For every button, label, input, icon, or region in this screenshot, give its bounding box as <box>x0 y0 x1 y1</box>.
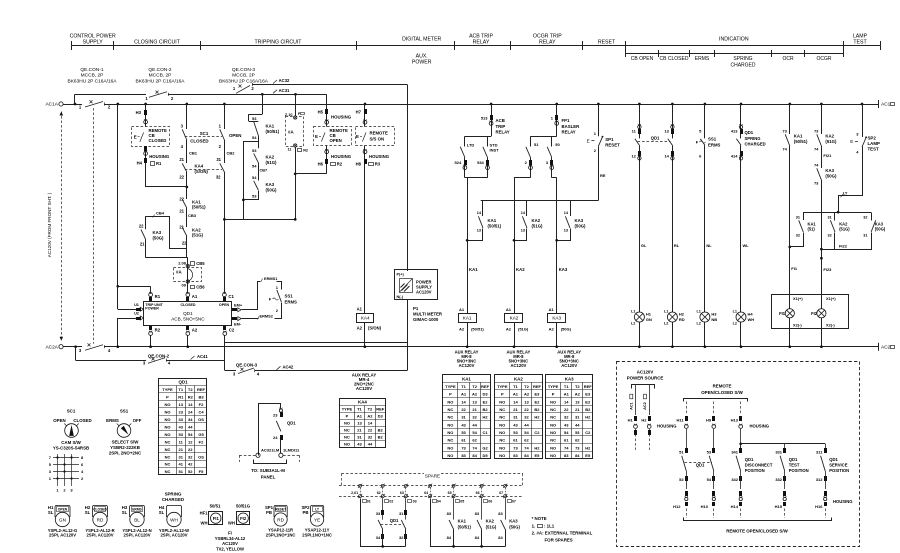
svg-text:POSITION: POSITION <box>789 468 809 473</box>
svg-text:FI2: FI2 <box>240 516 247 521</box>
svg-text:R2: R2 <box>303 149 308 153</box>
svg-text:QE.CON-1: QE.CON-1 <box>80 67 104 73</box>
breaker QE.CON-1 pole 2 on bus AC2A <box>63 346 82 348</box>
svg-text:FI21: FI21 <box>823 153 832 158</box>
svg-text:C1: C1 <box>482 430 488 435</box>
svg-text:R3: R3 <box>375 162 381 167</box>
svg-text:A1: A1 <box>549 307 555 312</box>
svg-text:H11: H11 <box>676 418 684 423</box>
svg-text:L1: L1 <box>631 310 635 314</box>
svg-text:(51G): (51G) <box>192 233 204 238</box>
remote open/closed switch assembly outer dashed box <box>617 362 860 547</box>
svg-text:34: 34 <box>376 535 381 540</box>
svg-text:REF: REF <box>584 384 593 389</box>
svg-text:BASLER: BASLER <box>562 124 581 129</box>
svg-text:NO: NO <box>165 432 171 437</box>
svg-text:OPEN: OPEN <box>330 138 342 143</box>
table KA4 contact cross-reference <box>340 399 386 448</box>
svg-text:CLOSED: CLOSED <box>73 418 91 423</box>
contact QD1 aux link CB OPEN / CB CLOSED <box>638 141 671 143</box>
svg-text:L1: L1 <box>696 310 700 314</box>
svg-text:H2: H2 <box>585 445 591 450</box>
svg-text:(50G): (50G) <box>575 224 587 229</box>
svg-text:32: 32 <box>524 415 529 420</box>
svg-text:32: 32 <box>564 415 569 420</box>
svg-text:OPEN: OPEN <box>229 133 241 138</box>
svg-text:31: 31 <box>513 415 518 420</box>
node AC2 right terminal <box>878 343 880 351</box>
svg-text:FI22: FI22 <box>839 244 848 249</box>
wire OCGR indication rung from bus <box>820 103 823 106</box>
svg-text:AC1: AC1 <box>881 102 891 108</box>
wire bus AC1A to trip-unit power R1 rail <box>116 103 119 106</box>
svg-text:50: 50 <box>555 142 560 147</box>
svg-text:43: 43 <box>461 422 466 427</box>
svg-text:2.08: 2.08 <box>178 261 187 266</box>
svg-text:1LMDI11: 1LMDI11 <box>283 448 300 453</box>
svg-text:AC321LM: AC321LM <box>261 448 280 453</box>
svg-text:H2: H2 <box>534 445 540 450</box>
wire net AC42 with label <box>255 370 407 372</box>
svg-text:WH: WH <box>228 521 235 526</box>
svg-text:E2: E2 <box>534 399 540 404</box>
wire AC41 segment left <box>76 360 146 362</box>
switch REMOTE CB CLOSED pushbutton dashed box <box>132 127 170 147</box>
svg-text:24: 24 <box>273 435 278 440</box>
svg-text:WL: WL <box>743 243 750 248</box>
nodes AC321LM and 1LMDI11 terminals <box>256 453 260 457</box>
svg-text:R2: R2 <box>188 395 194 400</box>
wire U1 feed from R1 rail <box>118 309 137 311</box>
svg-text:KA1: KA1 <box>266 124 275 129</box>
wire FI1 rung down to lamp box <box>789 146 791 294</box>
svg-text:AC31: AC31 <box>279 88 290 93</box>
svg-text:PANEL: PANEL <box>261 475 276 480</box>
svg-text:H6: H6 <box>318 162 324 167</box>
junction bus AC2A to AC41 return <box>74 345 77 348</box>
svg-text:T2: T2 <box>188 387 193 392</box>
svg-text:NC: NC <box>344 434 350 439</box>
svg-text:CB6: CB6 <box>196 285 205 290</box>
svg-text:AC1: AC1 <box>629 402 633 410</box>
svg-text:14: 14 <box>513 399 518 404</box>
svg-text:2SPI, 2NO+2NC: 2SPI, 2NO+2NC <box>109 451 142 456</box>
svg-text:P: P <box>449 392 452 397</box>
svg-text:KA3: KA3 <box>266 182 275 187</box>
svg-text:F5: F5 <box>199 469 204 474</box>
svg-text:YE: YE <box>314 517 320 522</box>
svg-text:QD1: QD1 <box>178 380 188 385</box>
svg-text:B2: B2 <box>534 407 540 412</box>
svg-text:09: 09 <box>182 283 187 288</box>
lamp box FI1 FI2 with X1 X2 terminals <box>772 295 849 329</box>
svg-text:62: 62 <box>377 491 381 495</box>
svg-text:73: 73 <box>782 129 787 134</box>
svg-text:REMOTE: REMOTE <box>713 384 732 389</box>
svg-text:53: 53 <box>513 430 518 435</box>
svg-text:T1: T1 <box>357 407 362 412</box>
svg-text:04: 04 <box>437 500 441 504</box>
svg-text:LT: LT <box>843 190 848 195</box>
svg-text:312: 312 <box>816 477 823 482</box>
svg-text:OS: OS <box>198 454 204 459</box>
svg-text:NC: NC <box>550 407 556 412</box>
svg-text:NO: NO <box>550 453 556 458</box>
svg-text:2SPI, AC120V: 2SPI, AC120V <box>123 533 150 538</box>
svg-text:REF: REF <box>533 384 542 389</box>
svg-text:KA3: KA3 <box>565 376 574 381</box>
contacts FP1 relay 51 and 50 terminals 2 3 <box>531 136 557 138</box>
svg-text:QD1: QD1 <box>183 311 193 316</box>
wire KA2 relay rung vertical <box>514 177 531 179</box>
svg-text:TEST: TEST <box>868 147 880 152</box>
svg-text:22: 22 <box>564 407 569 412</box>
svg-text:11: 11 <box>287 148 291 152</box>
svg-text:B2: B2 <box>378 434 384 439</box>
svg-text:53: 53 <box>179 432 184 437</box>
svg-text:T1: T1 <box>178 387 183 392</box>
wire H13 feed to position switches <box>739 442 742 445</box>
svg-text:31: 31 <box>399 511 404 516</box>
svg-text:22: 22 <box>368 428 373 433</box>
svg-text:332: 332 <box>775 477 782 482</box>
wire CB4 bypass jog <box>146 217 187 249</box>
svg-text:(51G): (51G) <box>532 224 544 229</box>
svg-text:X1(+): X1(+) <box>826 296 836 301</box>
svg-text:31: 31 <box>357 434 362 439</box>
svg-text:ACB, 5NO+5NC: ACB, 5NO+5NC <box>171 317 205 322</box>
svg-text:NC: NC <box>448 415 454 420</box>
svg-text:E: E <box>356 134 359 139</box>
svg-text:SUPPLY: SUPPLY <box>83 40 104 46</box>
svg-text:22: 22 <box>179 197 184 202</box>
svg-text:H3: H3 <box>711 312 717 317</box>
svg-text:74: 74 <box>782 147 787 152</box>
wire H5 remote-CB-open rung from AC31 <box>326 94 328 126</box>
svg-text:* NOTE: * NOTE <box>532 516 547 521</box>
svg-text:A1: A1 <box>513 392 519 397</box>
svg-text:(50G): (50G) <box>266 187 278 192</box>
svg-text:H9: H9 <box>706 418 712 423</box>
node AC1 right terminal <box>878 100 880 108</box>
svg-text:PB: PB <box>303 510 309 515</box>
svg-text:HOUSING: HOUSING <box>750 424 770 429</box>
svg-text:TRIPPING CIRCUIT: TRIPPING CIRCUIT <box>255 40 303 46</box>
svg-text:KA3: KA3 <box>552 316 561 321</box>
svg-text:KA2: KA2 <box>514 376 523 381</box>
svg-text:KA1: KA1 <box>794 134 803 139</box>
svg-text:NO: NO <box>499 422 505 427</box>
svg-text:ERMS: ERMS <box>132 507 142 511</box>
svg-text:S/S ON: S/S ON <box>370 137 385 142</box>
svg-text:OFF: OFF <box>133 418 142 423</box>
svg-text:F2: F2 <box>199 402 204 407</box>
svg-text:YS-C320S-54RSB: YS-C320S-54RSB <box>53 446 89 451</box>
svg-text:534: 534 <box>477 160 484 165</box>
svg-text:NC: NC <box>165 454 171 459</box>
svg-text:ERMS: ERMS <box>695 56 710 62</box>
svg-text:21: 21 <box>179 157 184 162</box>
svg-text:NO: NO <box>499 430 505 435</box>
svg-text:RELAY: RELAY <box>562 130 576 135</box>
table QD1 ACB contact cross-reference <box>159 379 207 475</box>
svg-text:NO: NO <box>165 417 171 422</box>
svg-text:DIGITAL METER: DIGITAL METER <box>402 37 441 43</box>
svg-text:(50/51): (50/51) <box>794 139 808 144</box>
svg-text:CHARGED: CHARGED <box>162 497 184 502</box>
svg-text:HOUSING: HOUSING <box>369 154 390 159</box>
svg-text:A2: A2 <box>472 392 478 397</box>
svg-text:KA1: KA1 <box>458 519 467 524</box>
svg-text:341: 341 <box>731 450 738 455</box>
svg-text:HOUSING: HOUSING <box>833 499 853 504</box>
contacts KA1 KA2 KA3 holding pins 14-13 <box>482 201 484 217</box>
wire KA3 relay rung vertical <box>552 177 557 179</box>
svg-text:65: 65 <box>448 491 452 495</box>
svg-text:13: 13 <box>472 399 477 404</box>
svg-text:AC120V: AC120V <box>510 363 526 368</box>
svg-text:B2: B2 <box>378 428 384 433</box>
svg-text:C2: C2 <box>585 430 591 435</box>
svg-text:TYPE: TYPE <box>162 387 173 392</box>
svg-text:31: 31 <box>827 216 831 220</box>
svg-text:54: 54 <box>252 135 257 140</box>
svg-text:44: 44 <box>188 424 193 429</box>
svg-text:SELECT S/W: SELECT S/W <box>112 440 140 445</box>
svg-text:21: 21 <box>179 225 184 230</box>
svg-text:D5: D5 <box>482 453 488 458</box>
wire KA1 relay rung vertical <box>465 177 488 179</box>
svg-text:42: 42 <box>188 462 193 467</box>
svg-text:14: 14 <box>368 421 373 426</box>
wire trip chain parallel return <box>258 135 260 148</box>
svg-text:R2: R2 <box>337 162 343 167</box>
svg-text:13: 13 <box>575 399 580 404</box>
svg-text:(50/51): (50/51) <box>458 524 472 529</box>
svg-text:54: 54 <box>564 430 569 435</box>
svg-text:32: 32 <box>216 175 221 180</box>
svg-text:74: 74 <box>814 163 819 168</box>
svg-text:(50G): (50G) <box>509 524 520 529</box>
svg-text:84: 84 <box>475 535 480 540</box>
breaker QD1 ACB 5NO+5NC main box <box>144 302 232 326</box>
svg-text:32: 32 <box>796 234 800 238</box>
wire FI22 branch return <box>822 233 835 250</box>
terminal H6 housing connector and resistor R2 label <box>326 146 328 174</box>
svg-text:NC: NC <box>499 438 505 443</box>
svg-text:TYPE: TYPE <box>548 384 559 389</box>
svg-text:KA2: KA2 <box>266 155 275 160</box>
svg-text:62: 62 <box>472 438 477 443</box>
svg-text:D3: D3 <box>378 414 384 419</box>
svg-text:CHARGED: CHARGED <box>730 63 755 69</box>
svg-text:01: 01 <box>367 500 371 504</box>
svg-text:(50/51): (50/51) <box>266 129 280 134</box>
svg-text:H2: H2 <box>585 415 591 420</box>
svg-text:QE.CON-2: QE.CON-2 <box>148 67 172 73</box>
svg-text:73: 73 <box>575 445 580 450</box>
svg-text:(51G): (51G) <box>266 160 278 165</box>
bracket TO SUB3A1L-M PANEL <box>254 460 287 464</box>
svg-text:AC2A: AC2A <box>45 344 58 350</box>
svg-text:AC2: AC2 <box>643 402 647 410</box>
wire KA spare group return <box>431 499 506 547</box>
wire H4 branch join to closing rung <box>146 186 187 188</box>
svg-text:TRIP: TRIP <box>496 124 506 129</box>
wire lamp-test tie line <box>803 212 871 214</box>
svg-text:51: 51 <box>534 142 539 147</box>
terminals R2 A2 C2 on ACB QD1 bottom <box>149 326 152 330</box>
svg-text:A2: A2 <box>524 392 530 397</box>
svg-text:BL: BL <box>134 517 140 522</box>
svg-text:CB CLOSED: CB CLOSED <box>660 56 689 62</box>
svg-text:LAMP: LAMP <box>868 141 881 146</box>
svg-text:54: 54 <box>188 432 193 437</box>
svg-text:T2: T2 <box>472 384 477 389</box>
svg-text:P1: P1 <box>413 306 419 311</box>
svg-text:H2: H2 <box>679 312 685 317</box>
svg-text:G2: G2 <box>482 445 488 450</box>
svg-text:34: 34 <box>188 417 193 422</box>
svg-text:GN: GN <box>59 517 66 522</box>
breaker QE.CON-1 pole link dashed <box>93 108 95 344</box>
wire bus AC2A horizontal <box>104 346 878 348</box>
svg-text:NO: NO <box>344 421 350 426</box>
svg-text:E: E <box>587 139 590 144</box>
svg-text:KA1: KA1 <box>469 267 478 272</box>
svg-text:21: 21 <box>575 407 580 412</box>
svg-text:KA3: KA3 <box>509 519 518 524</box>
svg-text:ACB: ACB <box>496 118 505 123</box>
svg-text:13: 13 <box>524 399 529 404</box>
terminal CB6 screw with label <box>186 280 189 283</box>
svg-text:TO: SUB3A1L-M: TO: SUB3A1L-M <box>251 468 285 473</box>
svg-text:P(+): P(+) <box>397 273 405 277</box>
wire opening rung from bus AC1A <box>223 103 226 106</box>
svg-text:L1: L1 <box>733 310 737 314</box>
external terminal box #A closing <box>174 268 202 282</box>
svg-text:TYPE: TYPE <box>497 384 508 389</box>
svg-text:REF: REF <box>481 384 490 389</box>
wires FI1 FI2 returns to bus AC2A <box>789 318 791 347</box>
svg-text:D3: D3 <box>482 392 488 397</box>
svg-text:RL: RL <box>674 243 680 248</box>
svg-text:F2: F2 <box>199 439 204 444</box>
section header rule with ticks <box>72 45 881 47</box>
power supply module AC120V box with converter symbol <box>395 270 438 300</box>
svg-text:KA2: KA2 <box>532 218 541 223</box>
svg-text:13: 13 <box>179 402 184 407</box>
svg-text:U1: U1 <box>134 303 139 307</box>
svg-text:#A: #A <box>176 270 182 275</box>
svg-text:SP2: SP2 <box>868 136 877 141</box>
svg-text:NO: NO <box>165 410 171 415</box>
svg-text:P: P <box>346 414 349 419</box>
svg-text:RESET: RESET <box>598 40 616 46</box>
svg-text:OS: OS <box>198 417 204 422</box>
svg-text:H2: H2 <box>641 418 647 423</box>
svg-text:2,61: 2,61 <box>351 491 358 495</box>
svg-text:A1: A1 <box>461 392 467 397</box>
svg-text:CLOSED: CLOSED <box>181 303 196 307</box>
terminals H11 H9 H13 housing rungs <box>686 402 688 416</box>
svg-text:CLOSED: CLOSED <box>93 507 107 511</box>
cam switch SC1 contact matrix 1-8 <box>53 457 79 459</box>
svg-text:HOUSING: HOUSING <box>657 424 677 429</box>
net AC120V from front sheet dashed rail with arrows <box>61 112 63 341</box>
svg-text:62: 62 <box>524 438 529 443</box>
svg-text:83: 83 <box>513 453 518 458</box>
svg-text:311: 311 <box>816 450 823 455</box>
svg-text:A2: A2 <box>506 327 512 332</box>
svg-text:L2: L2 <box>664 322 668 326</box>
svg-text:(50G): (50G) <box>153 235 165 240</box>
svg-text:A2: A2 <box>192 328 198 333</box>
svg-text:54: 54 <box>707 477 712 482</box>
svg-text:KA1: KA1 <box>463 316 472 321</box>
svg-text:R1: R1 <box>178 395 184 400</box>
svg-text:(50/51): (50/51) <box>488 224 502 229</box>
switch REMOTE S/S ON pushbutton dashed box <box>356 127 395 146</box>
svg-text:22: 22 <box>188 447 193 452</box>
svg-text:SPRING: SPRING <box>745 136 761 141</box>
svg-text:L2: L2 <box>696 322 700 326</box>
svg-text:B2: B2 <box>482 407 488 412</box>
svg-text:FP1: FP1 <box>562 118 570 123</box>
svg-text:CB3: CB3 <box>188 213 197 218</box>
svg-text:NC: NC <box>499 415 505 420</box>
svg-text:QE.CON-3: QE.CON-3 <box>232 67 256 73</box>
svg-text:#A: #A <box>288 130 294 135</box>
svg-text:RELAY: RELAY <box>496 130 510 135</box>
svg-text:53: 53 <box>461 430 466 435</box>
svg-text:31: 31 <box>863 234 867 238</box>
svg-text:T2: T2 <box>575 384 580 389</box>
svg-text:N(-): N(-) <box>397 295 404 299</box>
wire H7 remote S/S-ON rung from bus <box>364 103 367 106</box>
svg-text:44: 44 <box>524 422 529 427</box>
svg-text:61: 61 <box>564 438 569 443</box>
svg-text:SPRING: SPRING <box>733 56 752 62</box>
svg-text:MULTI METER: MULTI METER <box>413 312 443 317</box>
svg-text:H14: H14 <box>731 504 739 509</box>
svg-text:NO: NO <box>447 430 453 435</box>
svg-text:R2: R2 <box>155 328 161 333</box>
svg-text:P: P <box>552 392 555 397</box>
svg-text:07: 07 <box>512 500 516 504</box>
svg-text:LT: LT <box>315 507 319 511</box>
svg-text:CLOSED: CLOSED <box>190 139 208 144</box>
indication rungs QD1 contacts and lamps H1 GN H2 RD H3 NB H4 WH <box>638 103 641 106</box>
svg-text:CB2: CB2 <box>227 151 236 156</box>
svg-text:H1: H1 <box>646 312 652 317</box>
svg-text:SL: SL <box>85 510 91 515</box>
svg-text:L2: L2 <box>733 322 737 326</box>
svg-text:32: 32 <box>399 535 404 540</box>
svg-text:AC120V: AC120V <box>222 541 238 546</box>
wire H6 return to #A rung <box>295 173 327 175</box>
svg-text:E5: E5 <box>534 453 540 458</box>
wire P1 supply rail to AC42 <box>407 299 409 370</box>
svg-text:YSBRL34-AL12: YSBRL34-AL12 <box>215 536 246 541</box>
svg-text:ERMS2: ERMS2 <box>260 314 274 319</box>
svg-text:E2: E2 <box>585 399 591 404</box>
wire coil-return tie line to P1 rail <box>225 342 407 344</box>
svg-text:T2: T2 <box>524 384 529 389</box>
svg-text:12: 12 <box>631 154 636 159</box>
svg-text:T1: T1 <box>513 384 518 389</box>
svg-text:FI1: FI1 <box>791 266 798 271</box>
